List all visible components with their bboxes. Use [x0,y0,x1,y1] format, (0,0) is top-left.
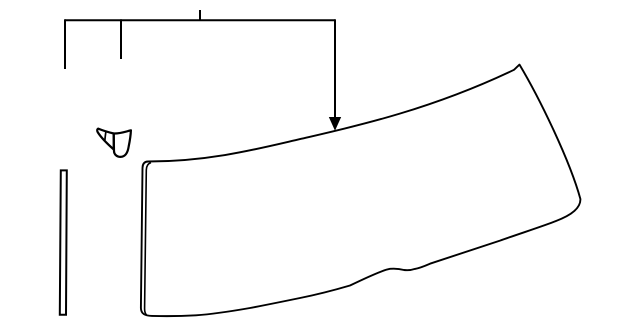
back glass outer outline [141,65,581,317]
callout bracket left drop line [64,19,66,69]
callout bracket top tick [199,10,201,20]
callout bracket horizontal line [65,19,335,21]
side moulding strip [60,170,67,314]
clip retainer head [114,130,131,157]
leader arrow shaft [334,19,336,119]
clip retainer wedge [97,129,114,150]
callout bracket middle drop line [120,19,122,59]
clip crease line [105,132,106,141]
back glass inner edge line [145,163,151,315]
leader arrowhead [330,118,341,130]
